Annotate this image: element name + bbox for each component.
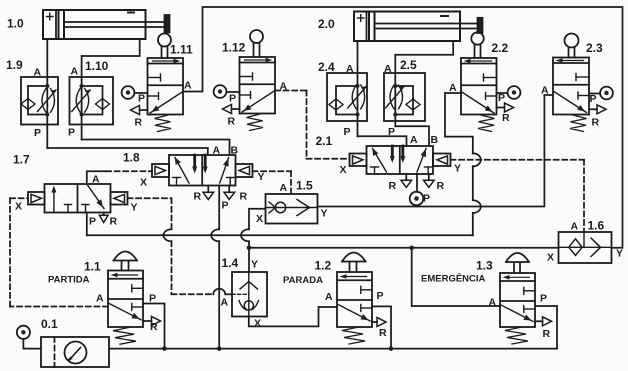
svg-text:A: A [489, 297, 497, 309]
svg-text:PARTIDA: PARTIDA [48, 275, 90, 286]
wire 1.7 P rail (horizontal signal rail) [87, 213, 473, 236]
exhaust symbol at 1.3 R [535, 317, 552, 326]
svg-text:A: A [213, 145, 221, 157]
valve 2.3 (3/2 roller, mirrored) [553, 34, 589, 132]
valve 1.8 (5/2 double pilot) [169, 155, 236, 186]
svg-text:A: A [384, 63, 392, 75]
svg-text:P: P [222, 200, 229, 212]
flow control valve 1.9 [21, 77, 58, 125]
svg-text:2.1: 2.1 [316, 134, 333, 148]
svg-text:P: P [377, 290, 384, 302]
valve 1.11 (3/2 roller) [148, 34, 184, 132]
svg-text:Y: Y [454, 163, 461, 175]
pilot Y of 1.7 [111, 192, 128, 205]
svg-text:P: P [229, 93, 236, 105]
wire 1.1 P to supply rail [143, 304, 167, 351]
flow control valve 2.5 [384, 73, 425, 121]
pressure source symbol at 2.3 P [589, 87, 613, 100]
svg-text:B: B [431, 134, 439, 146]
svg-text:A: A [184, 80, 192, 92]
pressure source symbol at 1.11 P [122, 86, 148, 99]
pilot wire 1.7 Y from 1.4 A (dashed, hops rails) [128, 198, 233, 294]
svg-text:EMERGÊNCIA: EMERGÊNCIA [421, 273, 486, 285]
svg-text:2.0: 2.0 [318, 17, 335, 31]
exhaust R of 1.7 [99, 213, 108, 223]
pilot wire 1.1 A to 1.7 X (dashed) [10, 198, 108, 306]
svg-text:R: R [110, 216, 118, 228]
svg-text:2.5: 2.5 [400, 58, 417, 72]
exhaust R left of 1.8 [203, 186, 214, 200]
wire branch to 1.3 A [412, 248, 500, 306]
supply rail [109, 306, 557, 349]
svg-text:A: A [410, 134, 418, 146]
svg-text:R: R [150, 321, 158, 333]
svg-text:1.12: 1.12 [222, 41, 246, 55]
svg-text:1.8: 1.8 [123, 151, 140, 165]
svg-text:1.10: 1.10 [85, 59, 109, 73]
svg-text:1.1: 1.1 [84, 260, 101, 274]
svg-text:R: R [437, 180, 445, 192]
valve 1.6 (shuttle valve) [559, 232, 612, 263]
valve 2.1 (5/2 double pilot) [367, 146, 434, 174]
svg-text:1.6: 1.6 [588, 219, 605, 233]
svg-text:P: P [590, 93, 597, 105]
svg-text:2.4: 2.4 [318, 60, 335, 74]
svg-text:2.3: 2.3 [586, 41, 603, 55]
svg-text:Y: Y [321, 208, 328, 220]
svg-text:P: P [149, 293, 156, 305]
valve 2.2 (3/2 roller, mirrored) [461, 32, 497, 131]
svg-text:P: P [89, 216, 96, 228]
svg-text:R: R [379, 327, 387, 339]
exhaust symbol at 1.11 R [131, 106, 148, 115]
pilot X of 2.1 [350, 154, 367, 167]
svg-text:A: A [92, 174, 100, 186]
flow control valve 1.10 [70, 77, 114, 125]
wire 1.2 P to supply rail [372, 306, 393, 351]
svg-text:A: A [280, 182, 288, 194]
wire 1.11 A to 1.6 Y via top rail [183, 7, 623, 248]
pressure source symbol at 0.1 [17, 326, 41, 349]
valve 1.2 PARADA (3/2 mushroom button) [337, 253, 372, 345]
wire 2.0 right port to 2.1 port B (through 2.5) [395, 41, 453, 146]
cylinder 1.0 [43, 10, 170, 39]
wire 1.8 P to supply rail (hops 1.7 P rail) [211, 186, 221, 351]
exhaust R right of 1.8 [224, 186, 235, 200]
pilot wire 2.1 Y from 1.6 A (dashed) [451, 160, 585, 232]
svg-text:Y: Y [616, 248, 623, 260]
pilot wire 1.7 A to 1.8 X (dashed) [87, 171, 152, 184]
exhaust symbol at 1.2 R [372, 318, 386, 327]
wire 1.4 X to 1.2 A [249, 307, 337, 326]
pilot wire 1.8 Y to 1.5 A (dashed) [253, 171, 292, 194]
svg-text:R: R [389, 180, 397, 192]
svg-text:A: A [571, 221, 579, 233]
svg-text:A: A [346, 63, 354, 75]
wire 1.0 right port to 1.8 port B (through 1.10) [82, 39, 230, 155]
svg-text:X: X [256, 213, 263, 225]
svg-text:P: P [344, 126, 351, 138]
cylinder 2.0 [354, 12, 483, 42]
svg-text:X: X [254, 318, 261, 330]
exhaust R left of 2.1 [401, 174, 412, 187]
pilot X of 1.8 [152, 164, 169, 177]
valve 1.1 PARTIDA (3/2 mushroom button) [108, 252, 143, 345]
svg-text:R: R [228, 116, 236, 128]
svg-text:X: X [340, 164, 347, 176]
svg-text:R: R [194, 191, 202, 203]
exhaust symbol at 1.12 R [223, 105, 240, 114]
valve 1.4 (signal check valve) [232, 272, 267, 317]
pressure source symbol at 2.1 P [410, 174, 424, 205]
svg-text:Y: Y [251, 259, 258, 271]
svg-text:X: X [15, 201, 22, 213]
svg-text:P: P [68, 127, 75, 139]
svg-text:1.4: 1.4 [222, 256, 239, 270]
svg-text:R: R [502, 112, 510, 124]
exhaust symbol at 2.3 R [589, 105, 606, 114]
flow control valve 2.4 [327, 73, 367, 121]
svg-text:A: A [34, 67, 42, 79]
svg-text:Y: Y [258, 171, 265, 183]
svg-text:A: A [71, 66, 79, 78]
svg-text:PARADA: PARADA [283, 275, 323, 286]
svg-text:2.2: 2.2 [492, 41, 509, 55]
svg-text:P: P [423, 193, 430, 205]
svg-text:R: R [543, 328, 551, 340]
pressure source symbol at 2.2 P [497, 86, 521, 99]
svg-text:1.5: 1.5 [296, 179, 313, 193]
wire 2.3 A to 1.5 Y [318, 95, 554, 207]
svg-text:X: X [547, 252, 554, 264]
pilot Y of 1.8 [236, 164, 253, 177]
wire 2.0 left port to 2.1 port A (through 2.4) [358, 41, 407, 146]
pressure source symbol at 1.12 P [214, 85, 240, 98]
svg-text:Y: Y [131, 202, 138, 214]
svg-text:R: R [135, 117, 143, 129]
wire signal rail to 1.6 X [249, 246, 559, 251]
wire 1.5 X to 1.4 Y (with hop and junction) [241, 209, 266, 272]
pilot Y of 2.1 [433, 154, 451, 167]
svg-text:B: B [231, 145, 239, 157]
supply unit 0.1 [41, 337, 109, 367]
svg-text:1.9: 1.9 [6, 58, 23, 72]
svg-text:A: A [325, 291, 333, 303]
svg-text:1.2: 1.2 [315, 259, 332, 273]
valve 1.5 (check / signal valve) [266, 194, 318, 224]
valve 1.7 (4/2 double pilot) [45, 184, 111, 213]
svg-text:X: X [140, 177, 147, 189]
valve 1.3 EMERGENCIA (3/2 mushroom button) [500, 253, 535, 344]
svg-text:0.1: 0.1 [41, 317, 58, 331]
svg-text:P: P [34, 127, 41, 139]
valve 1.12 (3/2 roller) [240, 30, 276, 131]
svg-text:P: P [498, 92, 505, 104]
exhaust symbol at 2.2 R [497, 103, 514, 112]
svg-text:P: P [540, 293, 547, 305]
svg-text:1.3: 1.3 [476, 259, 493, 273]
svg-text:1.7: 1.7 [13, 153, 30, 167]
wire 1.0 left port to 1.8 port A (through 1.9) [47, 39, 208, 155]
svg-text:R: R [240, 191, 248, 203]
svg-text:A: A [96, 293, 104, 305]
svg-text:1.11: 1.11 [170, 43, 193, 57]
wire 2.2 A down to 1.7 P rail (with crossover hops) [445, 93, 481, 235]
pilot X of 1.7 [28, 192, 45, 205]
svg-text:A: A [221, 297, 229, 309]
pilot wire 1.12 A to 2.1 X (dashed) [275, 91, 350, 159]
exhaust symbol at 1.1 R [143, 317, 161, 326]
svg-text:R: R [592, 117, 600, 129]
exhaust R right of 2.1 [424, 174, 435, 187]
svg-text:P: P [138, 93, 145, 105]
svg-text:1.0: 1.0 [7, 17, 24, 31]
